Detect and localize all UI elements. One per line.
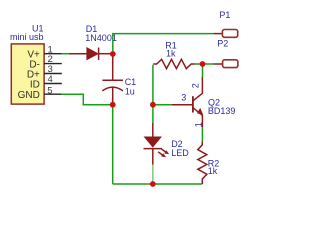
svg-text:P2: P2 xyxy=(217,39,228,49)
svg-text:3: 3 xyxy=(181,92,186,102)
svg-text:1u: 1u xyxy=(125,87,135,97)
svg-text:LED: LED xyxy=(171,148,189,158)
svg-text:2: 2 xyxy=(190,83,200,88)
svg-text:5: 5 xyxy=(47,85,52,96)
svg-text:1k: 1k xyxy=(208,166,218,176)
svg-text:C1: C1 xyxy=(125,77,137,87)
svg-text:P1: P1 xyxy=(219,10,230,20)
svg-text:1: 1 xyxy=(193,122,203,127)
svg-text:BD139: BD139 xyxy=(208,106,236,116)
svg-text:ID: ID xyxy=(30,79,40,90)
svg-text:mini usb: mini usb xyxy=(10,32,44,42)
svg-text:1k: 1k xyxy=(166,48,176,58)
svg-text:GND: GND xyxy=(18,90,40,101)
svg-text:4: 4 xyxy=(48,74,53,85)
svg-text:D1: D1 xyxy=(86,24,98,34)
